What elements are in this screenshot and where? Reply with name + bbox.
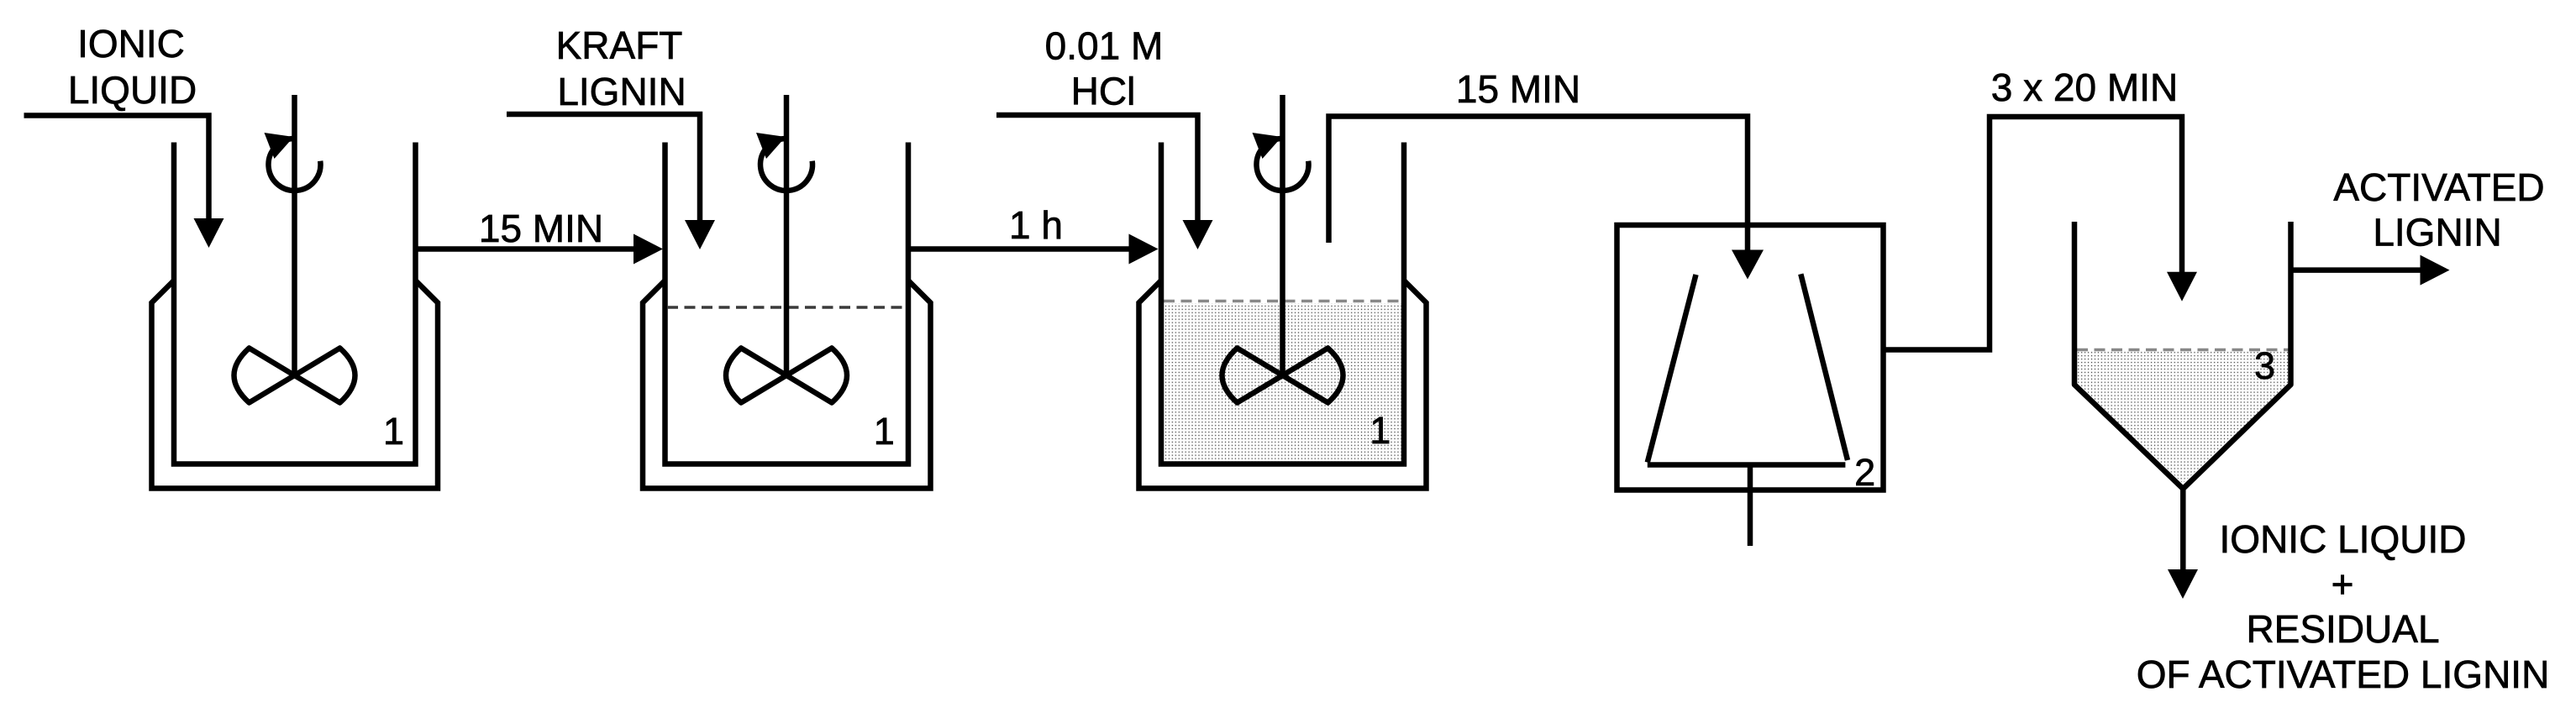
svg-text:HCl: HCl: [1071, 70, 1136, 113]
reactor 2 liquid level dashed: [667, 306, 906, 309]
funnel liquid stipple fill: [2077, 351, 2289, 484]
wire feed pipe into reactor 1: [24, 116, 209, 221]
reactor 3 liquid level dashed: [1164, 300, 1401, 303]
svg-text:IONIC LIQUID: IONIC LIQUID: [2220, 517, 2467, 561]
reactor 1 stirrer shaft: [292, 95, 297, 375]
reactor 3 stirrer shaft: [1280, 95, 1285, 375]
reactor 2 inner vessel: [665, 143, 909, 464]
wire feed pipe into reactor 3: [996, 115, 1198, 222]
wire feed pipe into reactor 2: [507, 114, 700, 222]
arrowhead feed reactor 3: [1183, 220, 1213, 249]
wire funnel bottom outlet: [2180, 489, 2186, 571]
label ACTIVATED LIGNIN: [2333, 165, 2544, 254]
svg-text:1 h: 1 h: [1009, 203, 1063, 247]
reactor 3 rotation arrow: [1253, 133, 1309, 191]
arrowhead activated lignin: [2421, 255, 2450, 286]
arrowhead into reactor 3: [1129, 234, 1159, 265]
svg-text:3 x 20 MIN: 3 x 20 MIN: [1991, 66, 2178, 109]
arrowhead into reactor 2: [633, 234, 663, 265]
funnel vessel 3: [2074, 222, 2291, 489]
reactor 3 liquid stipple fill: [1164, 303, 1402, 462]
reactor 3 inner vessel: [1161, 143, 1404, 464]
label IONIC LIQUID + RESIDUAL OF ACTIVATED LIGNIN: [2137, 517, 2550, 696]
reactor 2 jacket: [643, 280, 931, 489]
reactor 1 rotation arrow: [265, 133, 321, 191]
reactor 1 jacket: [152, 280, 439, 489]
arrowhead feed reactor 2: [685, 220, 715, 249]
svg-text:RESIDUAL: RESIDUAL: [2246, 607, 2439, 651]
filter box 2: [1617, 225, 1884, 490]
svg-text:LIGNIN: LIGNIN: [557, 70, 686, 113]
svg-text:0.01 M: 0.01 M: [1045, 24, 1164, 68]
wire funnel outlet right: [2291, 267, 2422, 273]
label KRAFT LIGNIN feed: [556, 24, 686, 113]
svg-text:1: 1: [383, 410, 404, 453]
filter cone right line: [1801, 274, 1848, 460]
filter cone left line: [1648, 275, 1696, 463]
reactor 3 jacket: [1139, 280, 1427, 489]
wire filter outlet to funnel: [1884, 117, 2183, 350]
svg-text:1: 1: [874, 410, 895, 453]
svg-text:3: 3: [2254, 344, 2275, 387]
funnel liquid level dashed: [2077, 349, 2289, 352]
reactor 2 rotation arrow: [756, 133, 812, 191]
label 0.01 M HCl feed: [1045, 24, 1164, 113]
wire reactor 2 to reactor 3: [908, 246, 1130, 252]
arrowhead feed reactor 1: [194, 218, 224, 248]
wire reactor 3 dip tube to filter: [1329, 117, 1748, 253]
reactor 2 impeller: [726, 349, 847, 403]
svg-text:OF ACTIVATED LIGNIN: OF ACTIVATED LIGNIN: [2137, 652, 2550, 696]
svg-text:15 MIN: 15 MIN: [479, 207, 603, 250]
wire reactor 1 to reactor 2: [416, 246, 636, 252]
reactor 1 impeller: [234, 349, 355, 403]
reactor 3 impeller: [1222, 349, 1343, 403]
svg-text:IONIC: IONIC: [77, 22, 185, 66]
filter bottom outlet stem: [1748, 465, 1753, 547]
svg-text:KRAFT: KRAFT: [556, 24, 683, 67]
svg-text:15 MIN: 15 MIN: [1456, 67, 1580, 111]
svg-text:2: 2: [1854, 451, 1875, 494]
reactor 2 stirrer shaft: [784, 95, 790, 375]
svg-text:LIGNIN: LIGNIN: [2373, 211, 2501, 254]
svg-text:LIQUID: LIQUID: [68, 68, 197, 112]
filter cone bottom line: [1648, 462, 1846, 468]
label IONIC LIQUID feed: [68, 22, 197, 112]
reactor 1 inner vessel: [174, 143, 416, 464]
svg-text:1: 1: [1369, 409, 1391, 452]
svg-text:ACTIVATED: ACTIVATED: [2333, 165, 2544, 209]
arrowhead into funnel: [2167, 272, 2197, 301]
svg-text:+: +: [2332, 563, 2354, 606]
arrowhead into filter: [1732, 250, 1764, 280]
arrowhead bottom outlet: [2168, 569, 2198, 599]
